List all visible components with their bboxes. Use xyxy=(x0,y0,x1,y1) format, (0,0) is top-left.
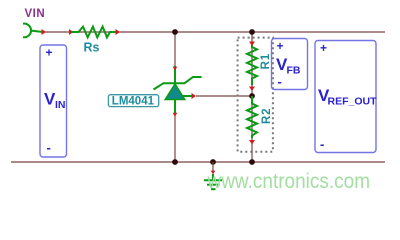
current arrow out of R2 xyxy=(249,140,255,145)
wire divider branch xyxy=(251,32,253,162)
wire top rail xyxy=(42,31,385,33)
svg-text:-: - xyxy=(47,140,51,155)
svg-text:-: - xyxy=(278,74,282,89)
ground xyxy=(204,162,222,189)
resistor R1 xyxy=(247,45,257,85)
node bottom zener junction xyxy=(172,159,178,165)
wire feedback FB xyxy=(181,95,252,97)
voltmeter box VIN xyxy=(40,45,67,157)
svg-text:Rs: Rs xyxy=(84,41,100,55)
node top divider junction xyxy=(249,29,255,35)
svg-text:VIN: VIN xyxy=(25,8,46,20)
label box LM4041 xyxy=(108,95,158,108)
svg-text:R1: R1 xyxy=(260,53,272,69)
current arrow out of R1 xyxy=(249,87,255,92)
resistor R2 xyxy=(247,96,257,138)
svg-text:+: + xyxy=(320,41,327,55)
node VIN label xyxy=(25,8,46,20)
node FB junction xyxy=(249,93,255,99)
zener diode D1 LM4041 xyxy=(154,66,202,113)
svg-text:LM4041: LM4041 xyxy=(112,96,155,108)
voltmeter box VFB xyxy=(272,39,308,90)
label R2 xyxy=(261,108,273,124)
watermark www.cntronics.com xyxy=(207,170,371,193)
current arrow on input wire xyxy=(42,29,47,35)
current arrow into ground xyxy=(211,171,216,175)
current arrow into R1 xyxy=(249,42,255,47)
node bottom ground junction xyxy=(210,159,216,165)
node bottom divider junction xyxy=(249,159,255,165)
svg-text:+: + xyxy=(277,39,284,53)
wire bottom rail xyxy=(11,161,385,163)
svg-text:FB: FB xyxy=(287,65,301,77)
current arrow after Rs xyxy=(116,29,121,35)
resistor Rs xyxy=(72,27,118,38)
svg-text:IN: IN xyxy=(55,99,66,111)
input port VIN xyxy=(23,24,42,38)
current arrow out of zener xyxy=(173,113,178,117)
svg-text:-: - xyxy=(320,137,324,152)
label Rs xyxy=(84,41,100,55)
wire zener branch xyxy=(174,32,176,162)
current arrow before Rs xyxy=(69,29,74,35)
svg-text:R2: R2 xyxy=(261,108,273,124)
voltmeter box VREF_OUT xyxy=(315,41,377,153)
svg-text:REF_OUT: REF_OUT xyxy=(328,96,378,108)
label R1 xyxy=(260,53,272,69)
node top zener junction xyxy=(172,29,178,35)
current arrow into zener xyxy=(173,67,178,71)
dashed box around divider xyxy=(238,38,273,152)
svg-text:www.cntronics.com: www.cntronics.com xyxy=(207,170,371,193)
current arrow on FB wire xyxy=(192,93,197,99)
svg-text:+: + xyxy=(46,46,53,60)
